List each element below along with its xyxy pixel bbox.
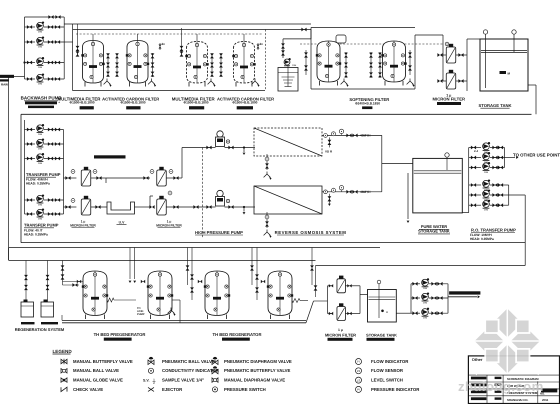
svg-text:25M: 25M (38, 30, 42, 33)
svg-text:25M: 25M (484, 209, 488, 212)
svg-text:EJECTOR: EJECTOR (162, 387, 183, 392)
svg-text:PNEUMATIC BALL VALVE: PNEUMATIC BALL VALVE (162, 359, 215, 364)
svg-text:zhulong.com: zhulong.com (458, 379, 544, 394)
svg-text:FLOW INDICATOR: FLOW INDICATOR (371, 359, 409, 364)
svg-text:MANUAL BALL VALVE: MANUAL BALL VALVE (73, 368, 119, 373)
svg-text:R.O. TRANSFER PUMP: R.O. TRANSFER PUMP (471, 227, 516, 232)
svg-text:40M³/H: 40M³/H (360, 134, 371, 138)
svg-text:REVERSE OSMOSIS SYSTEM: REVERSE OSMOSIS SYSTEM (275, 230, 347, 235)
svg-text:STORAGE TANK: STORAGE TANK (478, 103, 511, 108)
svg-text:25M: 25M (292, 64, 296, 67)
svg-text:MANUAL DIAPHRAGM VALVE: MANUAL DIAPHRAGM VALVE (224, 378, 285, 383)
svg-text:25M: 25M (38, 45, 42, 48)
svg-text:SHANGHAI CO.: SHANGHAI CO. (507, 398, 529, 402)
svg-text:Φ1500×B.B.1800: Φ1500×B.B.1800 (69, 101, 94, 105)
svg-text:MICRON FILTER: MICRON FILTER (70, 223, 96, 227)
svg-text:Φ1500×B.B.1800: Φ1500×B.B.1800 (232, 101, 257, 105)
svg-text:Φ1500×B.B.1800: Φ1500×B.B.1800 (183, 101, 208, 105)
svg-text:25M: 25M (38, 217, 42, 220)
svg-text:PUMP: PUMP (137, 313, 145, 316)
svg-text:Φ2400×B.B.1850: Φ2400×B.B.1850 (355, 101, 380, 105)
svg-text:25M: 25M (38, 133, 42, 136)
svg-text:MICRON FILTER: MICRON FILTER (433, 97, 466, 102)
svg-text:MANUAL BUTTERFLY VALVE: MANUAL BUTTERFLY VALVE (73, 359, 133, 364)
svg-text:Φ1500×B.B.1800: Φ1500×B.B.1800 (120, 101, 145, 105)
svg-text:PRESSURE INDICATOR: PRESSURE INDICATOR (371, 387, 420, 392)
svg-text:40M³/H: 40M³/H (360, 190, 371, 194)
svg-text:TO OTHER USE POINT: TO OTHER USE POINT (513, 153, 560, 158)
svg-text:SAMPLE VALVE 1/4": SAMPLE VALVE 1/4" (162, 378, 204, 383)
svg-text:REGENERATION SYSTEM: REGENERATION SYSTEM (15, 327, 65, 332)
svg-text:LEGEND: LEGEND (53, 349, 73, 354)
svg-text:FLOW SENSOR: FLOW SENSOR (371, 368, 404, 373)
svg-text:25M: 25M (423, 301, 427, 304)
svg-text:FS: FS (357, 369, 361, 373)
svg-text:25M: 25M (423, 317, 427, 320)
svg-text:TH BED REGENERATOR: TH BED REGENERATOR (213, 332, 262, 337)
svg-text:25M: 25M (38, 66, 42, 69)
svg-text:LEVEL SWITCH: LEVEL SWITCH (371, 378, 403, 383)
svg-text:LS: LS (357, 378, 361, 382)
svg-text:25M: 25M (38, 147, 42, 150)
svg-text:2-4: 2-4 (474, 149, 478, 153)
svg-text:HEAD: 0.35MPa: HEAD: 0.35MPa (26, 182, 50, 186)
svg-text:2x: 2x (162, 42, 166, 46)
svg-text:CONDUCTIVITY INDICATOR: CONDUCTIVITY INDICATOR (162, 368, 220, 373)
svg-text:PNEUMATIC DIAPHRAGM VALVE: PNEUMATIC DIAPHRAGM VALVE (224, 359, 292, 364)
svg-text:PI: PI (357, 388, 360, 392)
svg-text:TRANSFER PUMP: TRANSFER PUMP (24, 223, 59, 228)
svg-text:PRESSURE SWITCH: PRESSURE SWITCH (224, 387, 266, 392)
svg-text:HEAD: 0.35MPa: HEAD: 0.35MPa (24, 232, 48, 236)
svg-text:Other: Other (472, 357, 483, 362)
svg-text:CHECK VALVE: CHECK VALVE (73, 387, 103, 392)
svg-text:2004: 2004 (542, 398, 549, 402)
svg-text:25M: 25M (423, 287, 427, 290)
svg-text:HEAD: 0.35MPa: HEAD: 0.35MPa (470, 237, 494, 241)
svg-text:25M: 25M (38, 203, 42, 206)
svg-text:S.V.: S.V. (143, 379, 149, 383)
svg-text:25M: 25M (38, 162, 42, 165)
svg-text:25M: 25M (484, 171, 488, 174)
svg-text:STORAGE TANK: STORAGE TANK (366, 332, 397, 337)
svg-text:1 μ: 1 μ (338, 328, 343, 332)
svg-text:HIGH PRESSURE PUMP: HIGH PRESSURE PUMP (195, 230, 243, 235)
svg-text:MANUAL GLOBE VALVE: MANUAL GLOBE VALVE (73, 378, 123, 383)
svg-text:FI: FI (357, 360, 360, 364)
svg-text:RAW: RAW (1, 83, 8, 87)
svg-text:STORAGE TANK: STORAGE TANK (418, 229, 450, 234)
svg-text:TRANSFER PUMP: TRANSFER PUMP (26, 172, 61, 177)
svg-text:BACKWASH PUMP: BACKWASH PUMP (21, 96, 62, 101)
svg-text:PNEUMATIC BUTTERFLY VALVE: PNEUMATIC BUTTERFLY VALVE (224, 368, 290, 373)
svg-text:2x: 2x (260, 42, 264, 46)
svg-text:25M: 25M (38, 82, 42, 85)
svg-text:TH BED PREGENERATOR: TH BED PREGENERATOR (94, 332, 146, 337)
svg-text:MICRON FILTER: MICRON FILTER (156, 223, 182, 227)
svg-text:U.V: U.V (119, 220, 125, 224)
svg-text:VD R: VD R (325, 149, 333, 153)
svg-text:M: M (386, 311, 388, 314)
svg-text:MICRON FILTER: MICRON FILTER (325, 332, 356, 337)
